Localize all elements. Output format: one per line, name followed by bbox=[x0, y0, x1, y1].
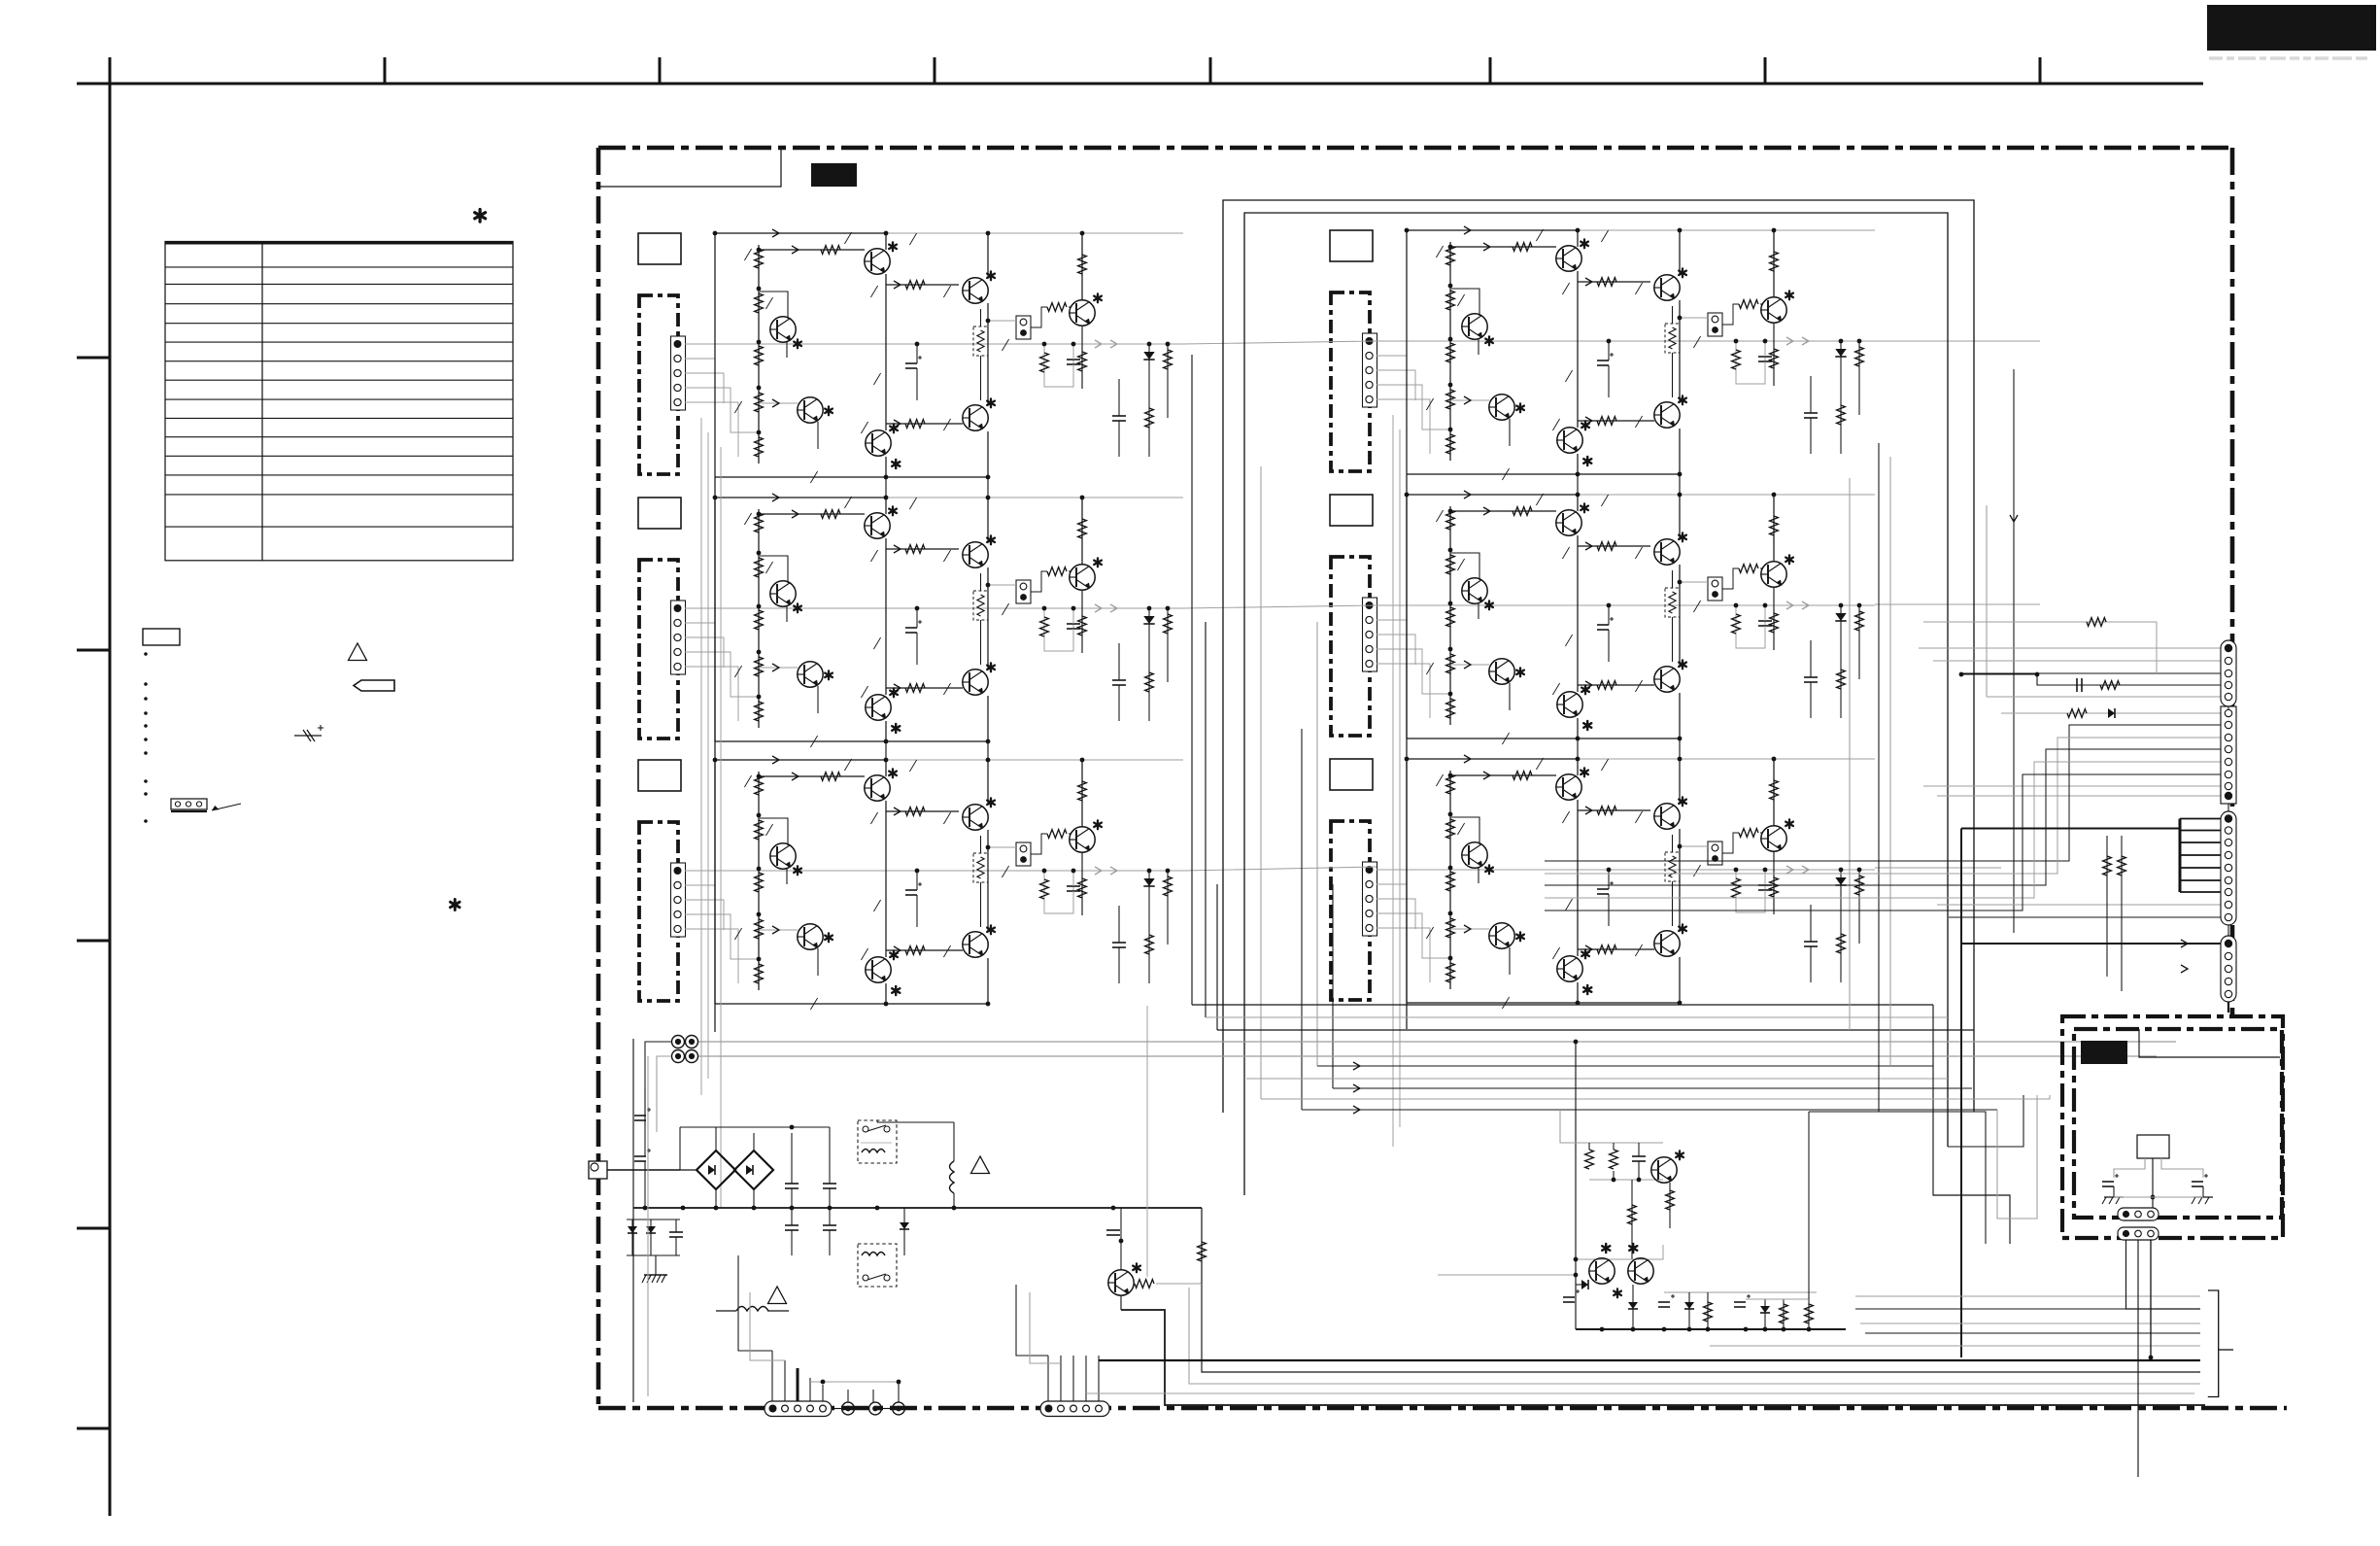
staircase wire to CN-B pin 2 bbox=[1545, 725, 2221, 861]
board name notch box bbox=[598, 150, 781, 187]
legend: fusible resistor symbol bbox=[294, 735, 322, 737]
table row line y=292.4 bbox=[165, 283, 513, 285]
ruler tick left y=1470 bbox=[77, 1427, 110, 1430]
bus wire B4 with arrow bbox=[1317, 1065, 1933, 1067]
connector strip CN-C bbox=[2221, 811, 2236, 925]
pair link wire bbox=[1576, 1245, 1663, 1259]
ruler tick top x=1246 bbox=[1209, 57, 1212, 84]
centre rail gap joint x=912 bbox=[885, 477, 887, 499]
bus wire B2 bbox=[1206, 1016, 1948, 1018]
legend: pointer arrow to connector bbox=[212, 804, 241, 810]
sub connector CN-S2 bbox=[2118, 1227, 2159, 1240]
link wire into protection bbox=[1438, 1274, 1576, 1276]
staircase wire to CN-B pin 6 bbox=[1545, 774, 2221, 910]
legend: 3-pin connector symbol bbox=[171, 799, 207, 809]
harness down to CN-F bbox=[1047, 1356, 1049, 1402]
table row line y=411.1 bbox=[165, 398, 513, 400]
page title black box (top right) bbox=[2207, 5, 2376, 51]
connector strip CN-A bbox=[2221, 640, 2236, 706]
ruler tick top x=679 bbox=[659, 57, 662, 84]
bottom connector CN-E bbox=[765, 1401, 832, 1417]
sub cap C-s2 with ground bbox=[2192, 1181, 2203, 1183]
speaker line - bbox=[698, 1055, 2157, 1057]
clamp cluster right bbox=[1664, 1291, 1817, 1293]
rail drop to harness bbox=[1202, 1208, 2200, 1372]
sense cap bbox=[1106, 1229, 1120, 1231]
legend: reference box bbox=[143, 629, 180, 645]
staircase wire to CN-B pin 5 bbox=[1545, 762, 2221, 898]
board border: left bbox=[596, 148, 601, 1408]
protection diode D-p2 bbox=[650, 1220, 652, 1255]
bracket stub y=854.5 bbox=[2180, 830, 2221, 832]
drawing frame: top ruler line bbox=[77, 83, 2203, 86]
connector strip CN-D bbox=[2221, 936, 2236, 1002]
ring terminal T1 bbox=[842, 1402, 855, 1415]
relay RY1 (dashed) bbox=[858, 1120, 897, 1163]
sub-board title black box bbox=[2081, 1041, 2127, 1064]
bus riser right A bbox=[1933, 1005, 2010, 1244]
right column mid-rail extensions bbox=[1875, 340, 2040, 342]
resistor Rp2 bbox=[1610, 1150, 1618, 1169]
table row line y=332.7 bbox=[165, 323, 513, 325]
harness line H3 bbox=[1860, 1323, 2200, 1324]
series RC to CN pin bbox=[1961, 674, 2221, 685]
relay RY2 (dashed) bbox=[858, 1244, 897, 1287]
amplifier channel block CH-6 (right bottom) bbox=[1330, 755, 1875, 1009]
ruler tick top x=396 bbox=[384, 57, 387, 84]
caution triangle PSU-2 bbox=[971, 1156, 990, 1174]
amplifier channel block CH-4 (right top) bbox=[1330, 226, 1875, 480]
legend: caution triangle symbol bbox=[349, 643, 367, 661]
centre rail gap joint x=1729 bbox=[1679, 474, 1681, 497]
bracket stub y=867 bbox=[2180, 842, 2221, 843]
legend bullet dots bbox=[144, 652, 148, 656]
feedback loop wire (outer) bbox=[1223, 200, 1974, 1113]
ruler tick top x=1817 bbox=[1764, 57, 1767, 84]
sub cap C-s1 with ground bbox=[2102, 1181, 2114, 1183]
harness group bracket bbox=[2208, 1290, 2219, 1397]
right column supply trunk bbox=[1406, 474, 1408, 1029]
sense feed from blocks bbox=[1146, 1006, 1148, 1277]
harness line H2 bbox=[1855, 1308, 2125, 1310]
amplifier channel block CH-1 (left top) bbox=[638, 229, 1183, 483]
left column supply trunk bbox=[714, 477, 716, 1032]
main supply rail bbox=[633, 1207, 1202, 1209]
diode Dp2 bbox=[1632, 1285, 1634, 1329]
bracket stub y=893 bbox=[2180, 867, 2221, 869]
table row line y=391.2 bbox=[165, 379, 513, 381]
sub-board outer dash border bbox=[2062, 1016, 2283, 1238]
harness risers right of blocks bbox=[1878, 443, 1880, 1112]
harness line H4 bbox=[1865, 1332, 2200, 1334]
resistor Rp1 bbox=[1588, 1143, 1590, 1171]
board border: right bbox=[2230, 148, 2235, 1014]
harness wire to CN pin y=944 bbox=[1949, 916, 2221, 918]
border hug wires left bbox=[632, 1039, 634, 1402]
bridge rectifier BR1 bbox=[697, 1151, 735, 1189]
R + diode wire bbox=[2001, 712, 2221, 714]
ruler tick top x=1534 bbox=[1489, 57, 1492, 84]
strip joiner stubs bbox=[2227, 706, 2229, 709]
gray link wires above connectors bbox=[810, 1381, 899, 1383]
table row line y=274.9 bbox=[165, 266, 513, 268]
terminal drop wires bbox=[645, 1042, 671, 1127]
amplifier channel block CH-5 (right middle) bbox=[1330, 491, 1875, 744]
table row line y=312.7 bbox=[165, 303, 513, 305]
protection trunk risers bbox=[1575, 1042, 1577, 1329]
ruler tick left y=368 bbox=[77, 357, 110, 360]
feedback loop wire (inner) bbox=[1244, 213, 1948, 1195]
staircase wire to CN-B pin 4 bbox=[1545, 749, 2221, 885]
harness down to CN-E bbox=[771, 1351, 773, 1402]
sense transistor Q-ps bbox=[1108, 1270, 1134, 1295]
bracket stub y=880 bbox=[2180, 854, 2221, 856]
filter capacitor C-f2 bbox=[823, 1183, 836, 1185]
zener Dz2 bbox=[1764, 1299, 1766, 1329]
connector strip CN-B bbox=[2221, 706, 2236, 804]
speaker terminal rings bbox=[672, 1036, 685, 1048]
pullup resistor bbox=[1201, 1208, 1203, 1284]
resistor Rp4 bbox=[1631, 1180, 1633, 1259]
bracket stub y=906 bbox=[2180, 879, 2221, 881]
harness wire to CN pin y=693 bbox=[1963, 672, 2221, 674]
harness line H6 (thick) bbox=[1099, 1359, 2200, 1361]
zener Dz1 bbox=[1688, 1292, 1690, 1329]
bus riser right D bbox=[1997, 1095, 2037, 1219]
column harness verticals (left) bbox=[700, 418, 702, 1095]
harness wire to CN pin y=667 bbox=[1919, 647, 2221, 649]
relay wiring loop bbox=[2114, 1158, 2145, 1178]
line filter caps bbox=[634, 1115, 646, 1117]
resistor into CN pin bbox=[1923, 621, 2157, 623]
inrush inductor bbox=[716, 1310, 736, 1312]
resistor Rp6 bbox=[1783, 1299, 1785, 1329]
relay coil box bbox=[2137, 1135, 2169, 1158]
protection diode D-p1 bbox=[631, 1220, 633, 1255]
thick distribution link bbox=[1961, 828, 2180, 830]
left column sense wires bbox=[1191, 355, 1193, 1005]
bracket stub y=918 bbox=[2180, 891, 2221, 893]
ruler tick top x=2100 bbox=[2039, 57, 2042, 84]
table row line y=449.7 bbox=[165, 436, 513, 438]
transistor Qp1 bbox=[1651, 1157, 1677, 1183]
harness wire to CN pin y=931 bbox=[1937, 904, 2221, 906]
staircase wire to CN-B pin 3 bbox=[1545, 738, 2221, 874]
drawing frame: left ruler line bbox=[109, 57, 112, 1516]
cap Cp1 bbox=[1632, 1155, 1646, 1157]
chassis ground symbol bbox=[644, 1274, 667, 1276]
gray return wire bbox=[1189, 1288, 2200, 1384]
amplifier channel block CH-2 (left middle) bbox=[638, 494, 1183, 747]
sense resistor bbox=[1135, 1280, 1154, 1288]
amplifier channel block CH-3 (left bottom) bbox=[638, 756, 1183, 1010]
transistor Qp2 bbox=[1589, 1258, 1615, 1284]
detect coil bbox=[953, 1122, 955, 1161]
filter capacitor C-f3 bbox=[785, 1224, 799, 1226]
table row line y=542.1 bbox=[165, 526, 513, 528]
table row line y=430.4 bbox=[165, 417, 513, 419]
bus wire B3 bbox=[1217, 1029, 1974, 1031]
transistor Qp3 bbox=[1628, 1258, 1653, 1284]
bus wire B8 with arrow bbox=[1302, 1109, 1997, 1111]
diode Dp1 bbox=[1581, 1280, 1588, 1289]
stray asterisk marker lower left bbox=[454, 900, 457, 910]
bridge rectifier BR2 bbox=[734, 1151, 773, 1189]
centre rail gap joint x=1017 bbox=[987, 477, 989, 499]
filter capacitor C-f1 bbox=[785, 1183, 799, 1185]
sub connector tails bbox=[2126, 1240, 2201, 1309]
AC inlet plug on border bbox=[589, 1161, 607, 1179]
legend: wire-flag arrow symbol bbox=[354, 680, 394, 691]
ring terminal T2 bbox=[869, 1402, 882, 1415]
filter capacitor C-f4 bbox=[823, 1224, 836, 1226]
ruler tick left y=1264 bbox=[77, 1227, 110, 1230]
harness line H7 bbox=[1086, 1392, 2194, 1394]
ruler tick left y=669 bbox=[77, 649, 110, 652]
ruler tick left y=968 bbox=[77, 940, 110, 943]
ground bracket for CN-C bbox=[2179, 819, 2182, 893]
table row line y=371.7 bbox=[165, 361, 513, 362]
bracket stub y=842.5 bbox=[2180, 818, 2221, 820]
sub-board notch wire bbox=[2139, 1029, 2280, 1057]
pulldown resistors near strips bbox=[2106, 836, 2108, 977]
table row line y=352.1 bbox=[165, 341, 513, 343]
harness line H5 bbox=[1710, 1345, 2200, 1347]
harness line H1 bbox=[1855, 1295, 2200, 1297]
grayed caption text under title box bbox=[2209, 56, 2223, 60]
resistor Rp7 bbox=[1808, 1299, 1810, 1329]
harness wire to CN pin y=717 bbox=[1987, 696, 2221, 698]
bus wire B5 bbox=[1246, 1078, 1948, 1080]
table row line y=508.9 bbox=[165, 494, 513, 496]
cap Cp2 bbox=[1563, 1296, 1575, 1298]
harness wire to CN pin y=680 bbox=[1933, 660, 2221, 662]
resistor Rp5 bbox=[1707, 1292, 1709, 1329]
resistor Rp3 bbox=[1669, 1183, 1671, 1228]
parts list table bbox=[165, 242, 513, 561]
bus wire B7 bbox=[1261, 1098, 1900, 1100]
table column divider bbox=[261, 242, 263, 561]
bus riser right C bbox=[1974, 1112, 1986, 1244]
board border: bottom bbox=[598, 1406, 2287, 1411]
sub-board inner dash border bbox=[2074, 1029, 2282, 1218]
POWER AMP board dash-dot border: top bbox=[598, 146, 2232, 151]
rectifier feed wires bbox=[680, 1169, 697, 1171]
note asterisk above table bbox=[479, 210, 482, 223]
centre rail gap joint x=1624 bbox=[1577, 474, 1579, 497]
arrows into CN-D bbox=[2181, 940, 2188, 947]
bus drop to box E bbox=[1900, 1095, 2050, 1099]
harness wire to CN pin y=809 bbox=[1923, 785, 2221, 787]
ring terminal T3 bbox=[893, 1402, 905, 1415]
column harness verticals (right) bbox=[1392, 415, 1394, 1147]
board title black box bbox=[811, 163, 857, 187]
protection ground bus bbox=[1576, 1328, 1846, 1330]
relay drive diode bbox=[903, 1208, 905, 1255]
thick return wire to bottom harness bbox=[1121, 1310, 2205, 1405]
ruler tick top x=962 bbox=[934, 57, 936, 84]
table row line y=469.3 bbox=[165, 455, 513, 457]
bottom connector CN-F bbox=[1040, 1401, 1109, 1417]
reservoir cap C-r bbox=[669, 1231, 683, 1233]
bus riser right B bbox=[1948, 1095, 2023, 1147]
speaker line + bbox=[698, 1041, 2176, 1043]
bus wire B1 bbox=[1192, 1004, 1933, 1006]
caution triangle PSU-1 bbox=[768, 1287, 787, 1304]
sub connector CN-S1 bbox=[2118, 1208, 2159, 1220]
harness wire to CN pin y=819 bbox=[1937, 795, 2221, 797]
bus wire B6 with arrow bbox=[1333, 1087, 1972, 1089]
table row line y=488.9 bbox=[165, 474, 513, 476]
signal rails crossing to right column bbox=[1183, 341, 1377, 344]
